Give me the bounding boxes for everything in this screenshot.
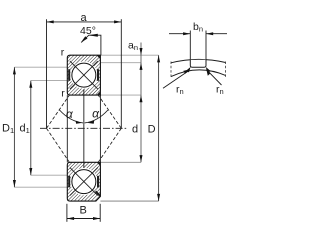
svg-text:rn: rn bbox=[216, 83, 224, 96]
dimension B bbox=[67, 204, 100, 222]
wire: inner ring split line bbox=[83, 90, 85, 168]
split line inside lower block bbox=[83, 162, 85, 168]
wire: d1 lower reference line bbox=[31, 174, 68, 176]
wire: D1 lower reference line bbox=[14, 186, 67, 188]
dimension an: vertical line with outside arrows bbox=[140, 43, 142, 163]
component: upper bearing section block bbox=[67, 55, 100, 95]
angle alpha arc right bbox=[85, 110, 108, 123]
wire: bore silhouette left bbox=[66, 95, 68, 162]
svg-text:B: B bbox=[80, 205, 87, 217]
wire: d1 upper reference line bbox=[31, 80, 68, 82]
svg-text:45°: 45° bbox=[80, 25, 96, 37]
svg-text:rn: rn bbox=[176, 83, 184, 96]
component: lower bearing section block bbox=[67, 162, 100, 201]
svg-text:D: D bbox=[148, 124, 156, 136]
svg-text:d: d bbox=[132, 124, 138, 136]
wire: bore d lower reference line bbox=[100, 161, 141, 163]
node: pitch axis dash-dot line bbox=[40, 127, 127, 129]
detail view: left break dash line bbox=[170, 62, 172, 78]
detail: fillet left bbox=[185, 67, 190, 72]
detail view: outer surface arc bbox=[171, 59, 226, 62]
dark corner top-right lower block bbox=[97, 162, 101, 166]
dimension a: line and arrows bbox=[47, 19, 122, 128]
ball upper bbox=[72, 63, 96, 87]
rn leader right bbox=[207, 70, 222, 85]
wire: bore silhouette right bbox=[99, 95, 101, 162]
groove clearance bbox=[70, 61, 97, 88]
svg-text:d1: d1 bbox=[20, 123, 30, 136]
svg-text:an: an bbox=[128, 39, 138, 52]
detail view: right break dash line bbox=[225, 62, 227, 78]
chamfer dark corner bottom-right bbox=[97, 91, 101, 95]
dimension d arrows bbox=[140, 95, 143, 102]
45deg leader bbox=[81, 35, 101, 55]
detail view: locating slot cup bbox=[190, 60, 206, 67]
svg-text:bn: bn bbox=[193, 21, 203, 34]
svg-text:r: r bbox=[61, 87, 65, 99]
svg-text:α: α bbox=[66, 107, 74, 121]
wire: slot bottom reference line for an bbox=[100, 62, 141, 64]
wire: outer diameter D lower reference line bbox=[100, 200, 158, 202]
detail view: groove bottom arc bbox=[171, 70, 226, 77]
wire: bore d upper reference line bbox=[100, 94, 141, 96]
wire: contact cone dashed line upper-right bbox=[98, 95, 121, 128]
slot notch dark corner top-right bbox=[97, 55, 101, 59]
wire: contact cone dashed line lower-right bbox=[98, 128, 121, 162]
detail: fillet right bbox=[206, 67, 211, 72]
dimension bn bbox=[169, 31, 227, 60]
svg-text:a: a bbox=[80, 12, 87, 24]
angle alpha arc left bbox=[60, 110, 84, 123]
wire: outer diameter D upper reference line bbox=[100, 54, 158, 56]
rn leader left bbox=[163, 70, 189, 88]
dimension D line bbox=[158, 55, 160, 201]
dimension D1 line bbox=[13, 67, 15, 187]
land gap right bbox=[97, 69, 99, 81]
land gap left bbox=[68, 69, 70, 81]
svg-text:r: r bbox=[61, 47, 65, 59]
wire: contact cone dashed line lower-left bbox=[47, 128, 70, 162]
ball lower bbox=[72, 170, 96, 194]
split line inside block bbox=[83, 89, 85, 95]
dimension d1 line bbox=[30, 81, 32, 176]
contact cross lines 45deg bbox=[70, 61, 98, 89]
wire: D1 upper reference line bbox=[14, 66, 67, 68]
svg-text:α: α bbox=[92, 107, 100, 121]
svg-text:D1: D1 bbox=[2, 123, 14, 136]
wire: contact cone dashed line upper-left bbox=[47, 95, 70, 128]
